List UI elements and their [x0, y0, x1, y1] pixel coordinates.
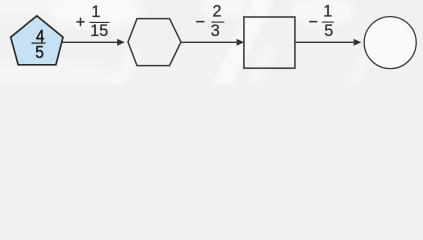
- faint streak bottom left of hexagon: [102, 50, 140, 104]
- light diagonal streak over square top-left continuing to bottom: [212, 0, 273, 93]
- svg-text:2: 2: [212, 2, 221, 20]
- svg-text:3: 3: [211, 22, 220, 40]
- arrowhead 2: [237, 39, 245, 46]
- square node: [244, 17, 295, 68]
- circle node (result): [364, 17, 416, 69]
- svg-text:−: −: [309, 13, 318, 31]
- hexagon node: [128, 19, 181, 66]
- svg-text:−: −: [196, 13, 205, 31]
- svg-text:1: 1: [91, 3, 100, 21]
- pentagon node (start value): [11, 16, 63, 65]
- label -1/5 : bar: [322, 21, 334, 23]
- arrowhead 3: [354, 39, 362, 46]
- faint streak below circle left: [340, 55, 371, 99]
- arrow wire 3 (square to circle): [296, 41, 356, 43]
- faint light wash bottom-left corner: [0, 60, 120, 100]
- svg-text:1: 1: [323, 2, 332, 20]
- fraction 4/5 bar: [31, 42, 45, 44]
- faint streak between hexagon and square bottom: [245, 45, 276, 94]
- arrow wire 2 (hexagon to square): [182, 41, 239, 43]
- svg-text:15: 15: [90, 22, 108, 40]
- svg-text:5: 5: [324, 22, 333, 40]
- light blotch behind label 3: [291, 0, 353, 25]
- faint light wash top-left corner: [0, 0, 57, 14]
- arrow wire 1 (pentagon to hexagon): [61, 41, 119, 43]
- label +1/15 : bar: [90, 21, 110, 23]
- arrowhead 1: [117, 39, 125, 46]
- svg-text:5: 5: [35, 42, 44, 62]
- svg-text:+: +: [76, 14, 85, 32]
- light blotch behind label 1: [50, 0, 142, 28]
- light blotch behind label 2: [202, 0, 244, 18]
- label -2/3 : bar: [212, 21, 225, 23]
